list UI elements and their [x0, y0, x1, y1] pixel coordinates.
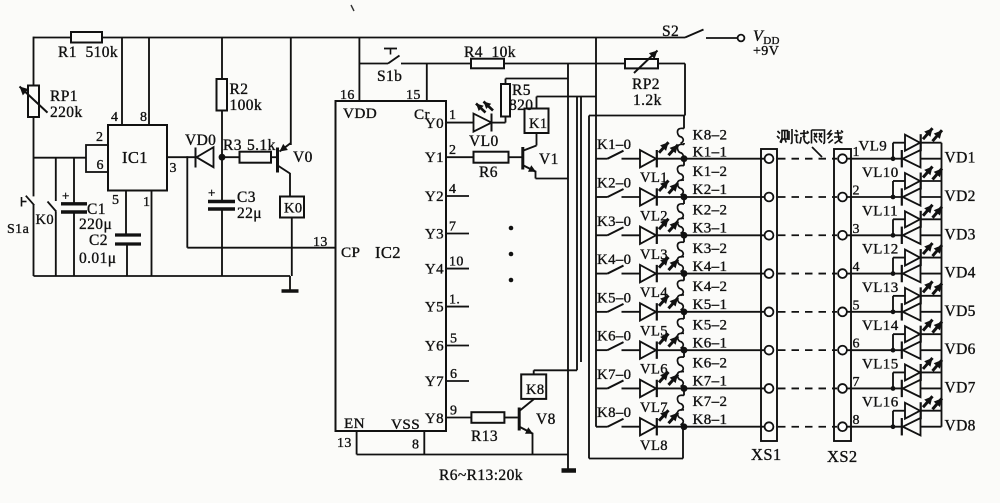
switch K6-0: [596, 329, 640, 351]
svg-text:15: 15: [406, 88, 421, 103]
svg-text:13: 13: [313, 235, 328, 250]
relay contact K1-2/K2-1: [677, 159, 727, 199]
diode VD7: [902, 379, 976, 397]
switch K1-0: [596, 137, 640, 159]
LED VL15: [862, 356, 942, 390]
svg-text:K4–2: K4–2: [693, 279, 728, 295]
svg-text:S2: S2: [662, 23, 679, 40]
LED VL5: [640, 295, 678, 339]
wire row 5 from XS2: [847, 311, 902, 313]
svg-text:C2: C2: [89, 232, 108, 249]
pin VSS stub: [412, 431, 424, 455]
svg-text:VD6: VD6: [945, 341, 976, 358]
wire dashed link 4: [778, 273, 837, 275]
pin number 4: [853, 260, 860, 275]
resistor R4: [464, 44, 625, 68]
LED VL1: [640, 142, 678, 186]
wire row 1 from XS2: [847, 158, 902, 160]
svg-text:S1b: S1b: [377, 68, 402, 85]
wire bottom ground rail: [357, 454, 568, 456]
svg-text:R6: R6: [479, 164, 498, 181]
svg-text:22μ: 22μ: [237, 205, 262, 222]
LED VL9: [859, 128, 943, 161]
wire row 8 to XS1: [657, 426, 765, 428]
resistor R3: [222, 137, 277, 163]
svg-text:VL8: VL8: [640, 438, 668, 454]
svg-text:S1a: S1a: [7, 222, 30, 237]
svg-text:4: 4: [111, 110, 118, 125]
pin 16 wire: [340, 38, 359, 104]
speck: [351, 5, 354, 11]
wire ground drop: [567, 64, 569, 471]
ground left: [282, 276, 299, 291]
svg-text:Y6: Y6: [425, 339, 444, 355]
diode VD3: [902, 226, 976, 244]
pin 6 bump: [86, 145, 108, 173]
switch K5-0: [596, 290, 640, 312]
svg-text:K3–0: K3–0: [597, 214, 631, 230]
svg-text:K1–1: K1–1: [693, 145, 728, 161]
pin number 5: [853, 298, 860, 313]
LED VL11: [862, 203, 942, 237]
wire row 7 from XS2: [847, 387, 902, 389]
svg-text:2: 2: [449, 143, 456, 158]
transistor V0: [278, 38, 313, 197]
svg-text:5: 5: [112, 193, 119, 208]
switch K7-0: [596, 367, 640, 389]
switch S1b: [359, 49, 471, 86]
connector XS2: [827, 149, 858, 466]
wire row 6 from XS2: [847, 349, 902, 351]
svg-text:K2–1: K2–1: [693, 182, 728, 198]
svg-text:VD7: VD7: [945, 379, 976, 396]
label CP: [341, 244, 360, 261]
pin 3 wire: [167, 157, 196, 176]
svg-text:VL0: VL0: [469, 133, 499, 150]
wire left rail mid: [33, 117, 35, 196]
svg-text:K0: K0: [284, 201, 303, 217]
connector XS1: [751, 149, 782, 464]
svg-text:C3: C3: [237, 189, 256, 206]
diode VD5: [902, 303, 976, 321]
node row 2: [681, 194, 688, 201]
svg-text:XS1: XS1: [751, 445, 782, 464]
svg-text:6: 6: [450, 367, 457, 382]
svg-text:RP1: RP1: [50, 88, 78, 105]
pin 15 wire: [406, 64, 427, 104]
svg-text:K4–0: K4–0: [597, 252, 631, 268]
diode VD8: [902, 418, 976, 436]
wire left rail upper: [33, 37, 35, 86]
LED VL14: [862, 318, 942, 352]
pin 4 wire: [111, 38, 122, 126]
label Cr: [414, 106, 430, 123]
switch K4-0: [596, 252, 640, 274]
svg-text:V0: V0: [293, 149, 313, 166]
svg-text:+9V: +9V: [753, 44, 779, 59]
pin number 3: [853, 222, 860, 237]
pin Y7: [425, 367, 469, 390]
LED VL0: [469, 102, 506, 151]
svg-text:Y0: Y0: [425, 116, 444, 132]
switch K8-0: [596, 405, 640, 427]
LED VL8: [640, 410, 678, 454]
potentiometer RP2: [625, 51, 685, 116]
svg-text:K3–2: K3–2: [693, 241, 728, 257]
wire row 6 to XS1: [657, 349, 765, 351]
svg-text:K1: K1: [529, 116, 548, 132]
svg-text:K7–2: K7–2: [693, 394, 728, 410]
svg-text:4: 4: [449, 182, 456, 197]
svg-text:RP2: RP2: [632, 76, 660, 93]
svg-text:K5–0: K5–0: [597, 290, 631, 306]
svg-text:R3: R3: [223, 137, 242, 154]
capacitor C2: [79, 232, 141, 276]
svg-text:6: 6: [97, 158, 104, 173]
terminal VDD +9V: [738, 28, 780, 59]
diode VD1: [902, 150, 976, 168]
wire K-block top edge: [589, 115, 685, 117]
svg-text:220k: 220k: [50, 104, 83, 121]
transistor V8: [519, 399, 556, 455]
svg-text:K0: K0: [36, 212, 55, 228]
pin 2 label: [96, 130, 103, 145]
svg-text:VDD: VDD: [343, 105, 377, 122]
transistor V1: [523, 134, 568, 179]
diode VD4: [902, 265, 976, 283]
wire row 2 from XS2: [847, 196, 902, 198]
svg-text:VD8: VD8: [945, 418, 976, 435]
diode VD0: [185, 132, 216, 168]
svg-text:K8: K8: [526, 382, 545, 398]
wire dashed link 2: [778, 196, 837, 198]
svg-text:10: 10: [449, 255, 464, 270]
ellipsis dots: [509, 226, 514, 283]
svg-text:K6–0: K6–0: [597, 329, 631, 345]
node row 3: [681, 232, 688, 239]
svg-text:K7–1: K7–1: [693, 374, 728, 390]
LED VL10: [862, 165, 942, 199]
svg-text:2: 2: [96, 130, 103, 145]
switch K2-0: [596, 175, 640, 197]
svg-text:VL11: VL11: [862, 203, 898, 219]
svg-text:Y4: Y4: [425, 262, 444, 278]
relay contact K8-2/K1-1: [677, 116, 727, 161]
svg-text:K1–0: K1–0: [597, 137, 631, 153]
relay contact K4-2/K5-1: [677, 274, 727, 314]
svg-text:K2–2: K2–2: [693, 202, 728, 218]
wire K-block bottom edge: [589, 427, 683, 459]
svg-text:EN: EN: [344, 415, 365, 432]
pin number 6: [853, 337, 860, 352]
LED VL13: [862, 280, 942, 314]
svg-text:R4 10k: R4 10k: [464, 44, 516, 61]
svg-text:K5–1: K5–1: [693, 297, 728, 313]
wire dashed link 3: [778, 234, 837, 236]
relay contact K0: [36, 158, 57, 276]
label test-cable (Chinese): [777, 129, 843, 157]
wire row 7 to XS1: [657, 387, 765, 389]
svg-text:K2–0: K2–0: [597, 175, 631, 191]
IC IC2: [336, 101, 447, 431]
switch S1a: [7, 196, 34, 237]
svg-text:100k: 100k: [230, 97, 263, 114]
svg-text:1: 1: [143, 195, 150, 210]
LED VL3: [640, 219, 678, 263]
node VD0-R3: [219, 154, 226, 161]
pin Y3: [425, 220, 469, 243]
svg-text:0.01μ: 0.01μ: [79, 250, 116, 267]
pin Y6: [425, 332, 469, 355]
label EN: [344, 415, 365, 432]
svg-text:220μ: 220μ: [79, 216, 112, 233]
switch K3-0: [596, 214, 640, 236]
capacitor C1: [61, 158, 112, 276]
wire dashed link 7: [778, 387, 837, 389]
svg-text:VL15: VL15: [862, 356, 899, 372]
wire row 8 from XS2: [847, 426, 902, 428]
svg-text:K7–0: K7–0: [597, 367, 631, 383]
node row 1: [681, 155, 688, 162]
svg-text:R13: R13: [471, 428, 498, 445]
label VDD: [343, 105, 377, 122]
resistor R2: [217, 38, 263, 158]
svg-text:K6–2: K6–2: [693, 356, 728, 372]
svg-text:1.: 1.: [449, 293, 460, 308]
svg-text:K6–1: K6–1: [693, 335, 728, 351]
LED VL16: [862, 395, 942, 429]
LED VL6: [640, 334, 678, 378]
resistor R1: [58, 32, 118, 61]
wire K-block left edge: [588, 116, 590, 459]
wire coil rail: [537, 97, 597, 371]
LED VL7: [640, 372, 678, 416]
svg-text:VL12: VL12: [862, 242, 899, 258]
svg-text:V1: V1: [539, 151, 559, 168]
wire bottom-left rail: [34, 275, 291, 277]
svg-text:K8–2: K8–2: [693, 128, 728, 144]
relay contact K7-2/K8-1: [677, 388, 727, 428]
capacitor C3: [208, 157, 262, 276]
diode VD2: [902, 188, 976, 206]
wire dashed link 6: [778, 349, 837, 351]
svg-text:820: 820: [509, 97, 533, 114]
svg-text:IC1: IC1: [122, 148, 148, 167]
svg-text:Y5: Y5: [425, 300, 444, 316]
switch S2: [662, 23, 738, 40]
svg-text:8: 8: [140, 110, 147, 125]
LED VL12: [862, 242, 942, 276]
wire dashed link 5: [778, 311, 837, 313]
pin 5 wire: [112, 191, 126, 236]
svg-text:V8: V8: [536, 411, 556, 428]
wire row 3 from XS2: [847, 234, 902, 236]
svg-text:VD4: VD4: [945, 265, 976, 282]
svg-text:9: 9: [450, 404, 457, 419]
pin Y4: [425, 255, 469, 278]
svg-text:3: 3: [170, 161, 177, 176]
pin number 1: [853, 145, 860, 160]
svg-text:VSS: VSS: [391, 416, 420, 433]
relay coil K0: [280, 197, 304, 277]
svg-text:K8–1: K8–1: [693, 412, 728, 428]
pin Y1: [425, 143, 474, 166]
svg-text:1: 1: [449, 108, 456, 123]
svg-text:7: 7: [449, 220, 456, 235]
node row 7: [681, 385, 688, 392]
svg-text:VL10: VL10: [862, 165, 899, 181]
pin number 7: [853, 375, 860, 390]
svg-text:R1 510k: R1 510k: [58, 44, 118, 61]
wire dashed link 8: [778, 426, 837, 428]
pin number 8: [853, 413, 860, 428]
svg-text:VD1: VD1: [945, 150, 976, 167]
svg-text:Y3: Y3: [425, 227, 444, 243]
relay coil K1: [525, 97, 549, 134]
relay contact K3-2/K4-1: [677, 235, 727, 275]
resistor R13: [471, 412, 518, 445]
svg-text:R6~R13:20k: R6~R13:20k: [439, 467, 523, 484]
resistor R6: [474, 152, 522, 181]
svg-text:5.1k: 5.1k: [247, 137, 276, 154]
relay contact K2-2/K3-1: [677, 197, 727, 237]
svg-text:XS2: XS2: [827, 447, 858, 466]
relay coil K8: [521, 370, 577, 399]
svg-text:VL9: VL9: [859, 139, 888, 155]
svg-text:1.2k: 1.2k: [633, 92, 662, 109]
wire row 3 to XS1: [657, 234, 765, 236]
wire row 4 from XS2: [847, 273, 902, 275]
op-amp IC1: [108, 125, 167, 191]
svg-text:VD0: VD0: [185, 132, 216, 149]
svg-text:CP: CP: [341, 244, 360, 261]
pin 1 wire: [143, 191, 152, 277]
wire top +9V rail: [34, 37, 686, 39]
wire right bus: [941, 143, 943, 427]
pin Y8: [425, 404, 472, 428]
svg-text:8: 8: [412, 438, 419, 453]
svg-text:VL16: VL16: [862, 395, 899, 411]
node row 8: [681, 423, 688, 430]
svg-text:13: 13: [337, 436, 352, 451]
pin Y5: [425, 293, 469, 316]
svg-text:VD5: VD5: [945, 303, 976, 320]
pin EN stub: [337, 431, 357, 455]
relay contact K5-2/K6-1: [677, 312, 727, 352]
wire K rail: [595, 38, 597, 427]
svg-text:IC2: IC2: [375, 243, 401, 262]
wire pins 2-6 to rail: [34, 157, 87, 159]
svg-text:VL13: VL13: [862, 280, 899, 296]
node row 4: [681, 270, 688, 277]
resistor R5: [501, 79, 568, 117]
relay contact K6-2/K7-1: [677, 350, 727, 390]
LED VL2: [640, 180, 678, 224]
svg-text:VL14: VL14: [862, 318, 899, 334]
wire row 5 to XS1: [657, 311, 765, 313]
LED VL4: [640, 257, 678, 301]
svg-text:Y7: Y7: [425, 374, 444, 390]
wire row 1 to XS1: [657, 158, 765, 160]
svg-text:16: 16: [340, 88, 355, 103]
svg-text:Y2: Y2: [425, 189, 444, 205]
svg-text:K4–1: K4–1: [693, 259, 728, 275]
wire CP link: [187, 156, 335, 250]
wire left rail lower: [33, 205, 35, 276]
pin Y2: [425, 182, 469, 205]
svg-text:VD3: VD3: [945, 226, 976, 243]
svg-text:K3–1: K3–1: [693, 220, 728, 236]
svg-text:VD2: VD2: [945, 188, 976, 205]
wire row 4 to XS1: [657, 273, 765, 275]
pin 8 wire: [140, 38, 149, 126]
svg-text:K5–2: K5–2: [693, 317, 728, 333]
potentiometer RP1: [20, 86, 83, 122]
svg-text:K1–2: K1–2: [693, 164, 728, 180]
svg-text:+: +: [208, 185, 216, 200]
label VSS: [391, 416, 420, 433]
node row 5: [681, 308, 688, 315]
wire dashed link 1: [778, 158, 837, 160]
svg-text:R2: R2: [230, 81, 249, 98]
svg-text:K8–0: K8–0: [597, 405, 631, 421]
pin number 2: [853, 183, 860, 198]
ground main: [562, 468, 577, 473]
svg-text:Y1: Y1: [425, 150, 444, 166]
svg-text:5: 5: [450, 332, 457, 347]
label R6~R13: [439, 467, 523, 484]
diode VD6: [902, 341, 976, 359]
node row 6: [681, 347, 688, 354]
svg-text:+: +: [62, 188, 70, 203]
pin Y0: [425, 108, 474, 132]
wire row 2 to XS1: [657, 196, 765, 198]
svg-text:Y8: Y8: [425, 411, 444, 427]
